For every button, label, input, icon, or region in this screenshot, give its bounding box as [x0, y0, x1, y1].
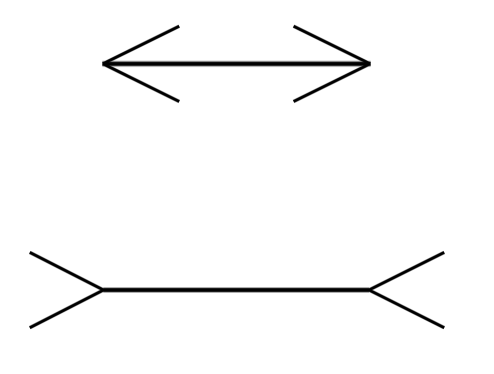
top horizontal shaft (wings-in line) : layer 2 (#8a8a8a w5.2) — [102, 61, 370, 66]
bottom-right lower tail fin : layer 2 (#5a5a5a w3.2) — [369, 290, 444, 328]
bottom-right upper tail fin : layer 3 (#000000 w2.5) — [369, 252, 444, 290]
top-right arrowhead upper fin : layer 3 (#000000 w2.5) — [294, 26, 371, 64]
top horizontal shaft (wings-in line) : layer 1 (#cdcdcd w6.6) — [102, 60, 370, 67]
bottom-right lower tail fin : layer 3 (#000000 w2.5) — [369, 290, 444, 328]
bottom-right upper tail fin : layer 1 (#b0b0b0 w3.8) — [369, 252, 444, 290]
bottom-left lower tail fin : layer 2 (#5a5a5a w3.2) — [30, 290, 104, 328]
bottom-left upper tail fin : layer 2 (#5a5a5a w3.2) — [30, 252, 104, 290]
top-left arrowhead upper fin : layer 2 (#5a5a5a w3.2) — [103, 26, 179, 64]
bottom-left upper tail fin : layer 1 (#b0b0b0 w3.8) — [30, 252, 104, 290]
top-left arrowhead upper fin : layer 3 (#000000 w2.5) — [103, 26, 179, 64]
top-right arrowhead lower fin : layer 2 (#5a5a5a w3.2) — [294, 64, 371, 102]
top-left arrowhead lower fin : layer 3 (#000000 w2.5) — [103, 64, 179, 102]
bottom-left lower tail fin : layer 1 (#b0b0b0 w3.8) — [30, 290, 104, 328]
bottom horizontal shaft (wings-out line) : layer 1 (#c8c8c8 w5.9) — [103, 287, 369, 293]
top-right arrowhead upper fin : layer 1 (#b0b0b0 w3.8) — [294, 26, 371, 64]
top horizontal shaft (wings-in line) : layer 3 (#3a3a3a w4.2) — [102, 62, 370, 66]
bottom horizontal shaft (wings-out line) : layer 4 (#000000 w3.0) — [103, 289, 369, 292]
top-right arrowhead lower fin : layer 1 (#b0b0b0 w3.8) — [294, 64, 371, 102]
bottom-right lower tail fin : layer 1 (#b0b0b0 w3.8) — [369, 290, 444, 328]
bottom-left upper tail fin : layer 3 (#000000 w2.5) — [30, 252, 104, 290]
bottom horizontal shaft (wings-out line) : layer 2 (#848484 w4.8) — [103, 288, 369, 293]
bottom-right upper tail fin : layer 2 (#5a5a5a w3.2) — [369, 252, 444, 290]
top horizontal shaft (wings-in line) : layer 4 (#000000 w3.1) — [102, 62, 370, 65]
bottom horizontal shaft (wings-out line) : layer 3 (#383838 w3.9) — [103, 288, 369, 292]
top-left arrowhead upper fin : layer 1 (#b0b0b0 w3.8) — [103, 26, 179, 64]
bottom-left lower tail fin : layer 3 (#000000 w2.5) — [30, 290, 104, 328]
top-right arrowhead lower fin : layer 3 (#000000 w2.5) — [294, 64, 371, 102]
top-left arrowhead lower fin : layer 1 (#b0b0b0 w3.8) — [103, 64, 179, 102]
top-left arrowhead lower fin : layer 2 (#5a5a5a w3.2) — [103, 64, 179, 102]
top-right arrowhead upper fin : layer 2 (#5a5a5a w3.2) — [294, 26, 371, 64]
